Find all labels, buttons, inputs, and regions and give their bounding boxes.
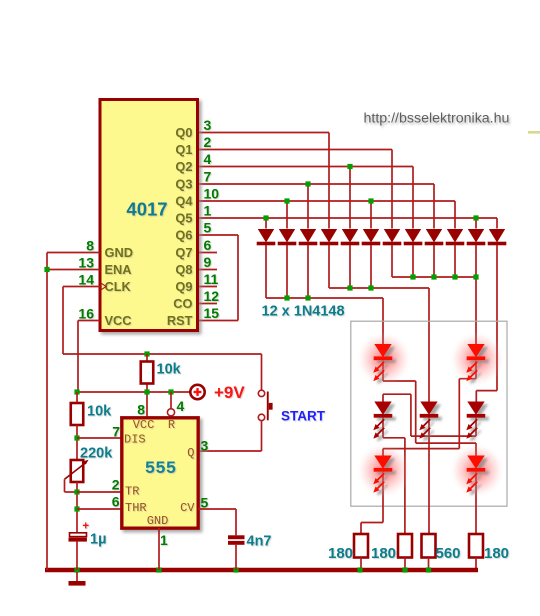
svg-text:TR: TR [125, 485, 139, 499]
svg-text:Q8: Q8 [175, 262, 192, 277]
svg-text:VCC: VCC [133, 418, 155, 432]
svg-text:2: 2 [112, 477, 120, 493]
svg-text:Q6: Q6 [175, 228, 192, 243]
svg-text:2: 2 [204, 134, 212, 150]
svg-text:10: 10 [204, 186, 220, 202]
svg-text:Q5: Q5 [175, 211, 192, 226]
svg-text:8: 8 [86, 238, 94, 254]
svg-text:555: 555 [145, 459, 177, 479]
svg-text:4n7: 4n7 [247, 534, 272, 550]
svg-text:CO: CO [173, 296, 192, 311]
svg-text:Q9: Q9 [175, 279, 192, 294]
svg-text:15: 15 [204, 305, 220, 321]
svg-text:220k: 220k [80, 446, 113, 462]
svg-text:7: 7 [112, 424, 120, 440]
svg-text:11: 11 [204, 271, 219, 287]
svg-text:8: 8 [137, 402, 145, 418]
svg-text:6: 6 [204, 237, 212, 253]
svg-text:DIS: DIS [124, 433, 146, 447]
svg-text:12: 12 [204, 288, 220, 304]
svg-text:3: 3 [204, 117, 212, 133]
svg-text:6: 6 [112, 494, 120, 510]
svg-text:16: 16 [78, 306, 94, 322]
svg-text:1: 1 [160, 532, 168, 548]
svg-text:Q3: Q3 [175, 177, 192, 192]
svg-text:RST: RST [167, 313, 193, 328]
svg-text:12 x 1N4148: 12 x 1N4148 [262, 304, 345, 320]
svg-text:180: 180 [328, 545, 353, 562]
svg-text:Q2: Q2 [175, 159, 192, 174]
svg-text:1: 1 [204, 203, 212, 219]
svg-text:Q7: Q7 [175, 245, 192, 260]
svg-text:GND: GND [147, 514, 169, 528]
svg-text:Q4: Q4 [175, 194, 193, 209]
svg-text:VCC: VCC [105, 313, 132, 328]
svg-text:ENA: ENA [105, 262, 132, 277]
svg-text:1µ: 1µ [90, 532, 106, 548]
svg-text:5: 5 [201, 495, 209, 511]
svg-text:13: 13 [78, 255, 94, 271]
svg-text:+9V: +9V [214, 383, 245, 402]
svg-text:7: 7 [204, 169, 212, 185]
svg-text:5: 5 [204, 220, 212, 236]
svg-text:R: R [168, 418, 175, 432]
svg-text:http://bsselektronika.hu: http://bsselektronika.hu [364, 111, 510, 127]
svg-text:180: 180 [484, 545, 509, 562]
svg-text:4: 4 [177, 398, 185, 414]
svg-text:14: 14 [78, 272, 94, 288]
svg-text:Q1: Q1 [175, 142, 192, 157]
svg-text:4017: 4017 [126, 199, 167, 220]
svg-text:9: 9 [204, 254, 212, 270]
svg-text:GND: GND [105, 245, 133, 260]
svg-text:3: 3 [201, 438, 209, 454]
svg-text:4: 4 [204, 151, 212, 167]
svg-text:Q0: Q0 [175, 125, 192, 140]
svg-text:CLK: CLK [105, 279, 132, 294]
svg-text:+: + [82, 521, 89, 533]
svg-text:180: 180 [371, 545, 396, 562]
svg-text:560: 560 [436, 545, 461, 562]
svg-text:START: START [281, 409, 326, 424]
svg-text:CV: CV [180, 501, 195, 515]
svg-text:10k: 10k [157, 362, 182, 378]
svg-text:Q: Q [187, 446, 194, 460]
svg-text:THR: THR [125, 501, 147, 515]
svg-text:10k: 10k [87, 404, 112, 420]
